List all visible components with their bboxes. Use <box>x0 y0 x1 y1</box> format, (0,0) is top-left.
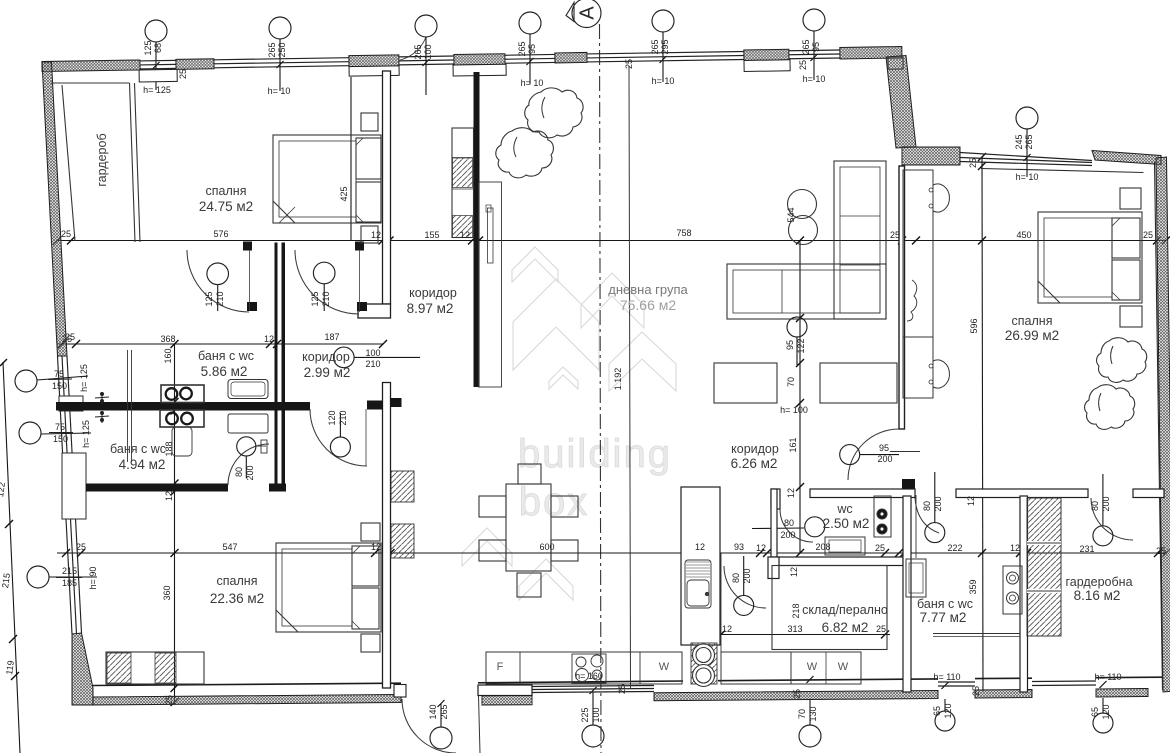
svg-text:W: W <box>659 661 670 673</box>
svg-text:баня с wc: баня с wc <box>198 349 254 363</box>
svg-text:265: 265 <box>439 704 449 719</box>
svg-text:140: 140 <box>428 704 438 719</box>
svg-text:100: 100 <box>423 44 433 59</box>
svg-text:12: 12 <box>1010 543 1020 553</box>
svg-text:25: 25 <box>1156 546 1166 556</box>
svg-text:200: 200 <box>742 568 752 583</box>
svg-text:313: 313 <box>787 624 802 634</box>
svg-text:265: 265 <box>267 42 277 57</box>
svg-text:161: 161 <box>788 437 798 452</box>
svg-text:25: 25 <box>61 229 71 239</box>
svg-text:h= 110: h= 110 <box>1094 672 1121 682</box>
svg-text:h= 125: h= 125 <box>81 420 91 448</box>
svg-text:25: 25 <box>178 69 188 79</box>
svg-text:25: 25 <box>875 543 885 553</box>
svg-text:25: 25 <box>968 158 978 168</box>
svg-text:26.99 м2: 26.99 м2 <box>1005 328 1059 343</box>
svg-text:120: 120 <box>943 703 953 718</box>
svg-text:баня с wc: баня с wc <box>110 442 166 456</box>
svg-text:95: 95 <box>785 340 795 350</box>
svg-text:215: 215 <box>62 566 77 576</box>
svg-text:25: 25 <box>798 60 808 70</box>
svg-text:h= 10: h= 10 <box>521 78 544 88</box>
svg-text:склад/перално: склад/перално <box>802 603 888 617</box>
svg-text:коридор: коридор <box>409 286 457 300</box>
svg-text:25: 25 <box>65 332 75 342</box>
svg-text:210: 210 <box>215 291 225 306</box>
svg-text:187: 187 <box>324 332 339 342</box>
svg-text:150: 150 <box>53 434 68 444</box>
svg-text:200: 200 <box>780 530 795 540</box>
svg-text:185: 185 <box>62 578 77 588</box>
svg-text:208: 208 <box>815 542 830 552</box>
svg-text:1.192: 1.192 <box>613 368 623 391</box>
svg-text:120: 120 <box>327 410 337 425</box>
svg-text:5.86 м2: 5.86 м2 <box>201 364 248 379</box>
svg-text:25: 25 <box>164 695 174 705</box>
svg-text:h= 10: h= 10 <box>1016 172 1039 182</box>
svg-text:150: 150 <box>52 381 67 391</box>
svg-text:218: 218 <box>791 603 801 618</box>
svg-text:12: 12 <box>695 542 705 552</box>
svg-text:200: 200 <box>933 496 943 511</box>
svg-text:758: 758 <box>676 228 691 238</box>
svg-text:h= 160: h= 160 <box>575 671 603 681</box>
svg-text:25: 25 <box>876 624 886 634</box>
svg-text:6.26 м2: 6.26 м2 <box>731 456 778 471</box>
svg-text:8.16 м2: 8.16 м2 <box>1074 588 1121 603</box>
svg-text:210: 210 <box>365 359 380 369</box>
svg-text:W: W <box>838 661 849 673</box>
svg-text:425: 425 <box>339 186 349 201</box>
svg-text:70: 70 <box>797 709 807 719</box>
svg-text:4.94 м2: 4.94 м2 <box>119 457 166 472</box>
svg-text:80: 80 <box>234 467 244 477</box>
svg-text:265: 265 <box>517 41 527 56</box>
svg-text:544: 544 <box>786 207 796 222</box>
svg-text:баня с wc: баня с wc <box>917 597 973 611</box>
svg-text:2.99 м2: 2.99 м2 <box>304 365 351 380</box>
svg-text:265: 265 <box>1024 134 1034 149</box>
svg-text:2.50 м2: 2.50 м2 <box>823 516 870 531</box>
svg-text:коридор: коридор <box>302 350 350 364</box>
svg-text:70: 70 <box>786 377 796 387</box>
svg-text:80: 80 <box>922 501 932 511</box>
svg-text:25: 25 <box>971 686 981 696</box>
svg-text:25: 25 <box>890 230 900 240</box>
svg-text:100: 100 <box>365 348 380 358</box>
svg-text:12: 12 <box>756 543 766 553</box>
svg-text:222: 222 <box>947 543 962 553</box>
svg-text:360: 360 <box>162 585 172 600</box>
svg-text:130: 130 <box>808 706 818 721</box>
svg-text:95: 95 <box>527 44 537 54</box>
svg-text:75: 75 <box>54 369 64 379</box>
svg-text:95: 95 <box>811 42 821 52</box>
svg-text:160: 160 <box>163 348 173 363</box>
svg-text:h= 10: h= 10 <box>268 86 291 96</box>
svg-text:125: 125 <box>143 40 153 55</box>
svg-text:wc: wc <box>836 502 852 516</box>
svg-text:12: 12 <box>371 230 381 240</box>
svg-text:A: A <box>577 6 599 20</box>
svg-text:12: 12 <box>264 334 274 344</box>
svg-text:265: 265 <box>413 44 423 59</box>
svg-text:80: 80 <box>1090 501 1100 511</box>
svg-text:дневна група: дневна група <box>608 282 688 297</box>
svg-text:гардероб: гардероб <box>95 133 109 186</box>
svg-text:h= 125: h= 125 <box>143 85 171 95</box>
svg-text:368: 368 <box>160 334 175 344</box>
svg-text:245: 245 <box>1014 134 1024 149</box>
svg-text:25: 25 <box>624 59 634 69</box>
svg-text:596: 596 <box>969 318 979 333</box>
svg-text:80: 80 <box>731 573 741 583</box>
svg-text:100: 100 <box>591 707 601 722</box>
svg-text:12: 12 <box>789 567 799 577</box>
svg-text:22.36 м2: 22.36 м2 <box>210 591 264 606</box>
svg-text:h= 100: h= 100 <box>780 405 808 415</box>
svg-text:12: 12 <box>966 496 976 506</box>
svg-text:коридор: коридор <box>731 442 779 456</box>
svg-text:576: 576 <box>213 229 228 239</box>
svg-text:h= 110: h= 110 <box>933 672 960 682</box>
svg-text:12: 12 <box>371 542 381 552</box>
svg-text:215: 215 <box>0 572 12 588</box>
svg-text:75.66 м2: 75.66 м2 <box>620 297 677 313</box>
svg-text:250: 250 <box>277 42 287 57</box>
svg-text:25: 25 <box>76 542 86 552</box>
svg-text:600: 600 <box>539 542 554 552</box>
svg-text:24.75 м2: 24.75 м2 <box>199 199 253 214</box>
svg-text:65: 65 <box>932 706 942 716</box>
svg-text:93: 93 <box>734 542 744 552</box>
svg-text:80: 80 <box>784 518 794 528</box>
svg-text:h= 125: h= 125 <box>79 364 89 392</box>
svg-text:155: 155 <box>424 230 439 240</box>
svg-text:119: 119 <box>4 660 16 676</box>
svg-text:12: 12 <box>722 624 732 634</box>
svg-text:7.77 м2: 7.77 м2 <box>920 610 967 625</box>
svg-text:12: 12 <box>786 488 796 498</box>
svg-text:25: 25 <box>617 684 627 694</box>
svg-text:гардеробна: гардеробна <box>1065 575 1132 589</box>
svg-text:h= 90: h= 90 <box>88 567 98 590</box>
svg-text:75: 75 <box>55 422 65 432</box>
svg-text:200: 200 <box>245 465 255 480</box>
svg-text:122: 122 <box>796 338 806 353</box>
svg-text:359: 359 <box>968 579 978 594</box>
svg-text:295: 295 <box>660 39 670 54</box>
svg-text:95: 95 <box>879 443 889 453</box>
svg-text:12: 12 <box>164 491 174 501</box>
svg-text:200: 200 <box>877 454 892 464</box>
svg-text:450: 450 <box>1016 230 1031 240</box>
svg-text:спалня: спалня <box>1012 314 1053 328</box>
svg-text:6.82 м2: 6.82 м2 <box>822 620 869 635</box>
svg-text:125: 125 <box>310 291 320 306</box>
svg-text:65: 65 <box>1090 707 1100 717</box>
svg-text:25: 25 <box>1143 230 1153 240</box>
svg-text:547: 547 <box>222 542 237 552</box>
svg-text:265: 265 <box>650 39 660 54</box>
svg-text:h= 10: h= 10 <box>803 74 826 84</box>
svg-text:спалня: спалня <box>206 184 247 198</box>
svg-text:231: 231 <box>1079 544 1094 554</box>
svg-text:200: 200 <box>1101 496 1111 511</box>
svg-text:h= 10: h= 10 <box>652 76 675 86</box>
svg-text:F: F <box>497 661 504 673</box>
svg-text:188: 188 <box>164 441 174 456</box>
svg-text:W: W <box>807 661 818 673</box>
svg-text:125: 125 <box>204 291 214 306</box>
svg-text:225: 225 <box>580 707 590 722</box>
svg-text:210: 210 <box>321 291 331 306</box>
svg-text:68: 68 <box>153 43 163 53</box>
svg-text:210: 210 <box>338 410 348 425</box>
svg-text:спалня: спалня <box>217 574 258 588</box>
svg-text:12: 12 <box>460 230 470 240</box>
svg-text:8.97 м2: 8.97 м2 <box>407 301 454 316</box>
svg-text:120: 120 <box>1101 704 1111 719</box>
svg-text:265: 265 <box>801 39 811 54</box>
svg-text:25: 25 <box>792 689 802 699</box>
